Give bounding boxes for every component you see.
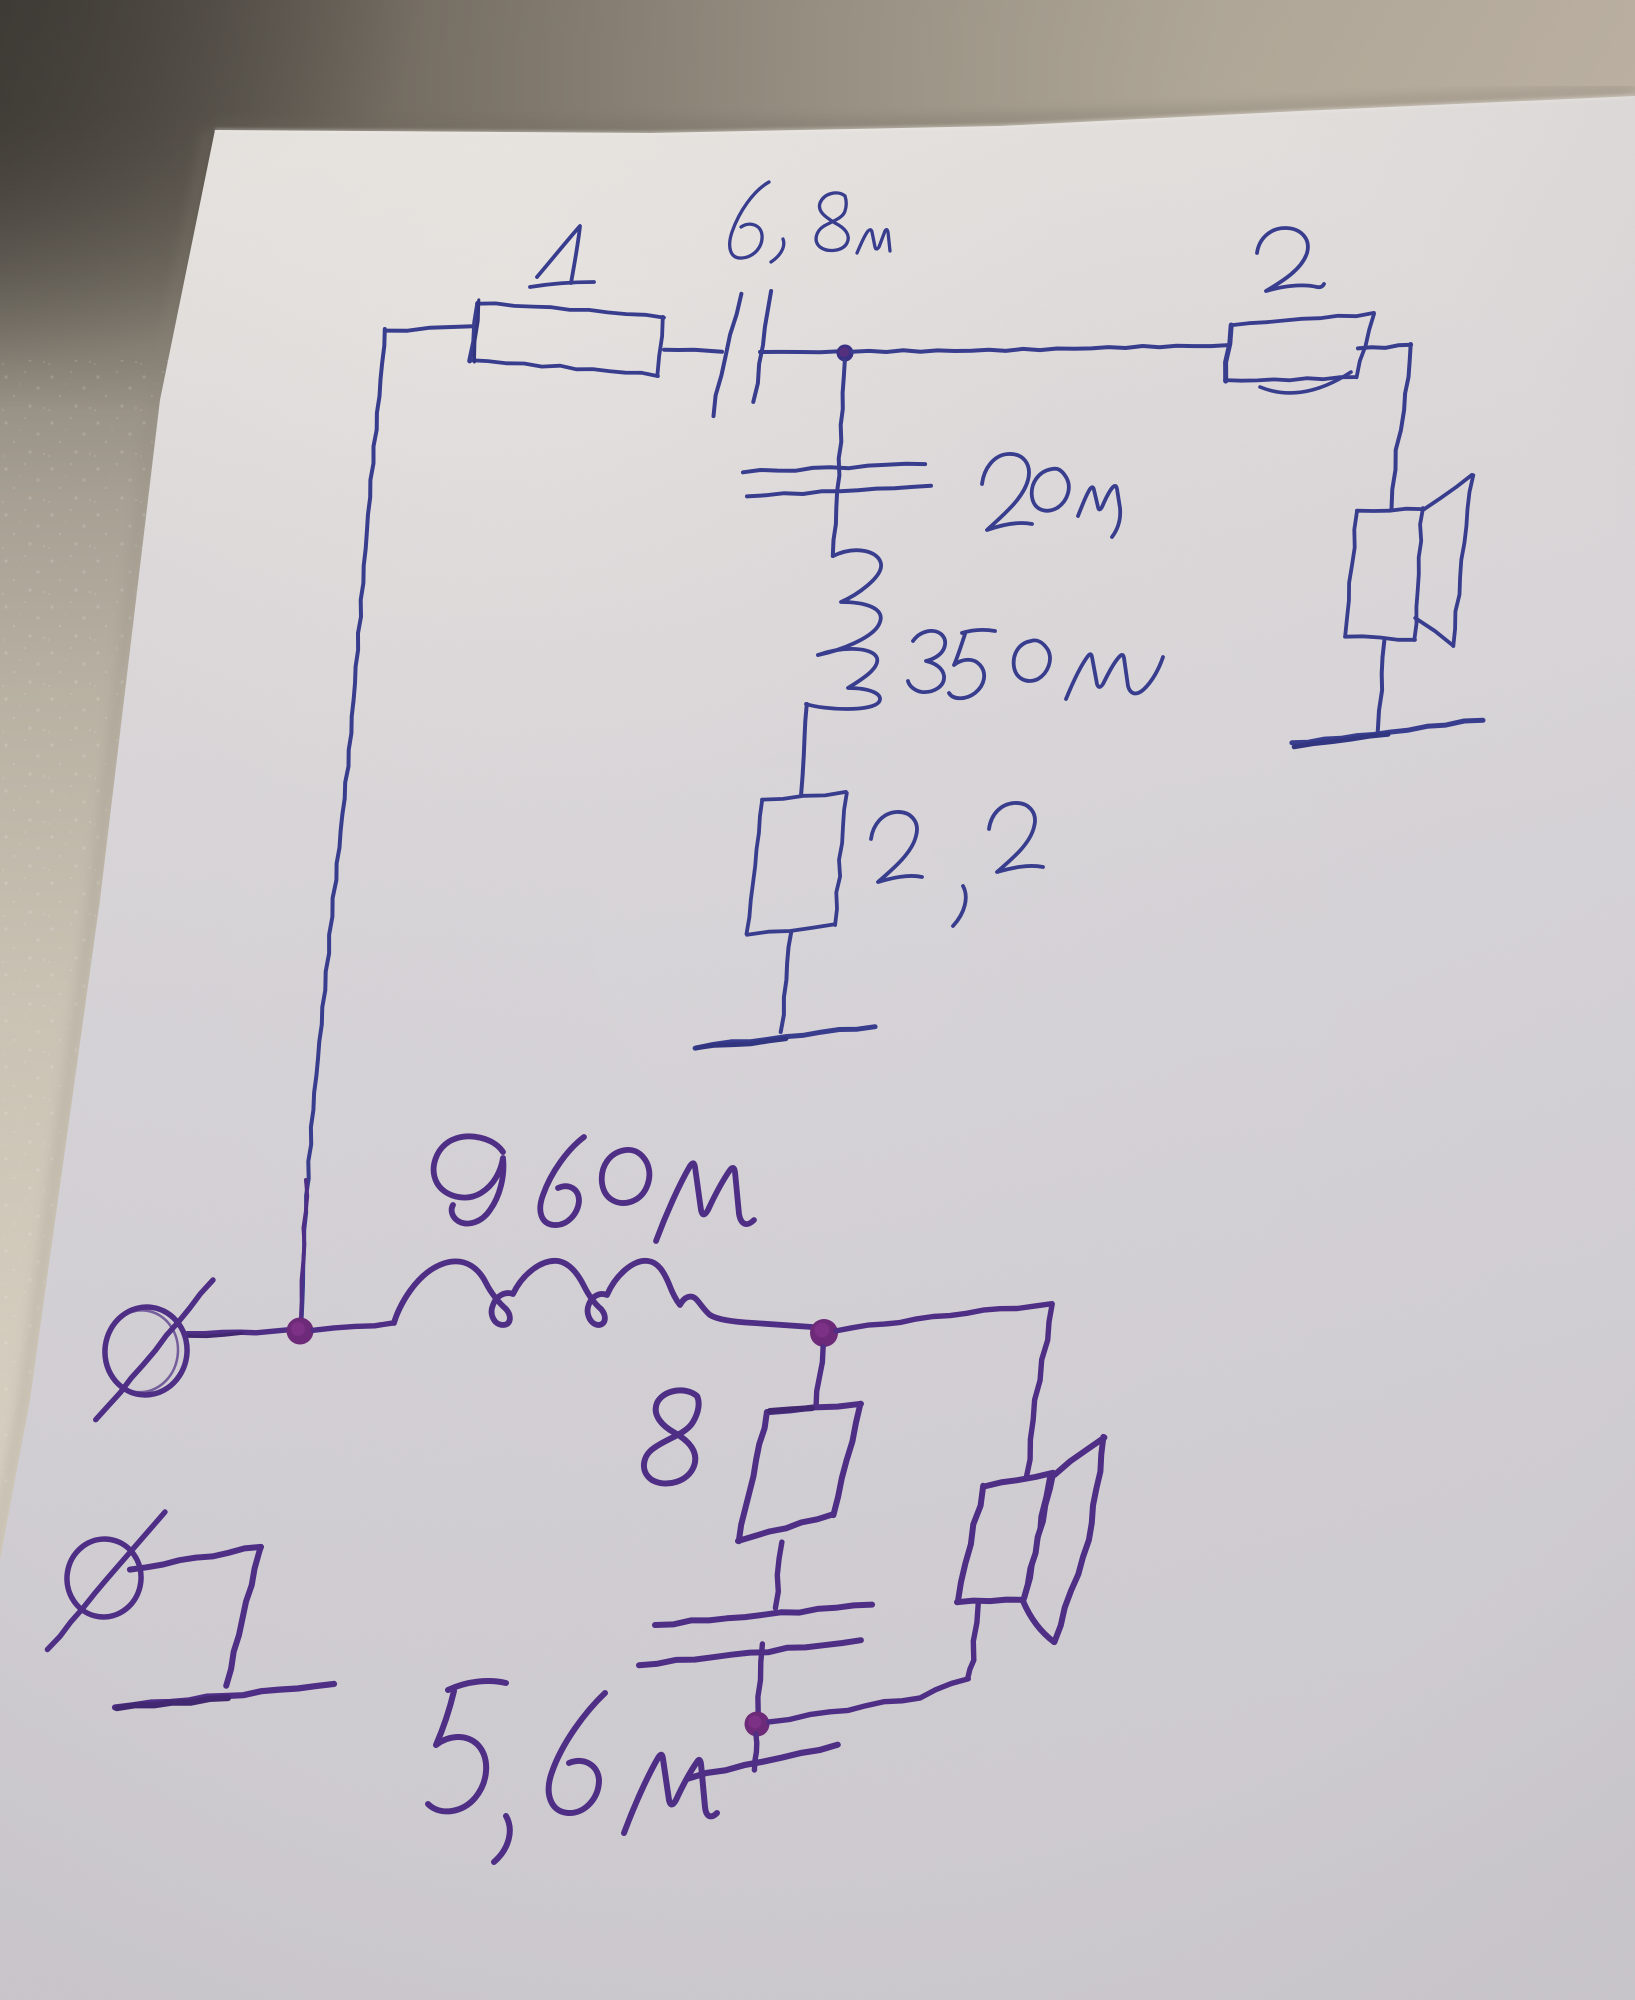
value label 2,2 (R3) — [871, 803, 1043, 926]
capacitor C2 (20u shunt) — [743, 464, 931, 497]
wire SP2 bottom terminal — [968, 1604, 978, 1678]
speaker SP2 (woofer) — [957, 1437, 1104, 1642]
wire T2 to ground flag — [130, 1547, 261, 1570]
wire C3 to node C — [758, 1644, 763, 1714]
wire node J1 down to capacitor C2 — [837, 361, 845, 492]
value label 5,6u (C3) — [428, 1681, 717, 1862]
value label 6,8u (C1) — [730, 182, 890, 262]
node C junction dot — [745, 1712, 770, 1737]
input terminal T1 (+) — [96, 1280, 213, 1420]
wire node J1 to resistor R2 — [852, 345, 1228, 352]
node B junction dot — [810, 1319, 838, 1347]
ground G3 (woofer branch) — [688, 1745, 838, 1779]
label 2 (tweeter branch) — [1257, 228, 1324, 291]
ground G1 (tweeter return) — [1292, 720, 1483, 747]
wire R4 to capacitor C3 — [775, 1542, 782, 1608]
value label 1 (R1) — [530, 226, 594, 287]
speaker SP1 (tweeter) — [1345, 475, 1473, 646]
wire node C to SP2 return — [769, 1679, 968, 1722]
wire R3 to ground G2 — [781, 931, 792, 1032]
ground G4 (input return) — [115, 1547, 334, 1708]
ground G2 (shunt branch) — [695, 1027, 875, 1049]
node A junction dot — [287, 1318, 314, 1345]
value label 8 (R4) — [644, 1390, 699, 1483]
node J1 junction dot — [837, 345, 854, 362]
capacitor C1 (6,8u series) — [714, 291, 772, 416]
wire T1 to node A — [187, 1330, 288, 1337]
wire R2 to tweeter SP1 — [1358, 344, 1411, 509]
value label 20u (C2) — [982, 454, 1120, 537]
resistor R1 — [470, 300, 664, 376]
wire node B to woofer SP2 — [836, 1304, 1052, 1479]
capacitor C3 (5,6u) — [639, 1605, 872, 1666]
wire C2 to inductor L1 — [833, 492, 837, 556]
inductor L1 (350u) — [801, 550, 881, 796]
wire top-left corner to resistor R1 — [385, 326, 473, 331]
value label 960u (L2) — [434, 1136, 754, 1241]
inductor L2 (960u) — [394, 1261, 812, 1327]
wire SP1 to ground G1 — [1378, 641, 1385, 731]
input terminal T2 (-) — [47, 1512, 165, 1650]
wire R1 to capacitor C1 — [664, 350, 722, 352]
resistor R2 — [1225, 313, 1374, 393]
wire left vertical bus from R1 corner down to node A — [302, 329, 385, 1322]
resistor R4 (8 ohm) — [738, 1404, 861, 1541]
wire node C to ground G3 — [754, 1734, 756, 1770]
resistor R3 (2,2) — [747, 792, 847, 935]
wire node B to resistor R4 — [816, 1347, 823, 1406]
wire node A to inductor L2 — [313, 1323, 394, 1331]
wire left bus lower overdraw — [301, 1180, 308, 1322]
value label 350u (L1) — [908, 630, 1163, 699]
wire C1 to node J1 — [760, 351, 840, 352]
